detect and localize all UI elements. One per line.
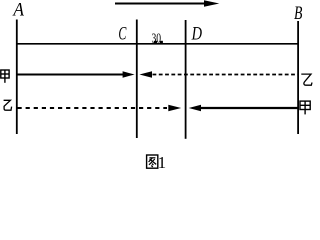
label jia (right) — [300, 101, 310, 114]
top direction arrow — [115, 0, 219, 6]
vertical line D — [185, 20, 187, 139]
main horizontal line A to B — [16, 43, 299, 45]
row2: jia solid arrow from B to D — [189, 105, 298, 111]
label jia (left) — [1, 70, 9, 83]
vertical line C — [136, 20, 138, 139]
svg-text:A: A — [12, 1, 25, 21]
svg-text:C: C — [118, 24, 126, 44]
vertical line B — [297, 21, 299, 134]
svg-text:D: D — [191, 24, 203, 44]
row1: jia solid arrow from A to C — [18, 71, 135, 77]
label yi (left) — [4, 100, 12, 110]
label yi (right) — [301, 74, 312, 85]
row1: yi dashed arrow from B to C — [139, 71, 298, 77]
caption tu (figure) glyph — [147, 155, 158, 168]
svg-text:1: 1 — [158, 153, 167, 169]
svg-text:30: 30 — [152, 31, 162, 46]
row2: yi dashed arrow from A to D — [18, 105, 182, 111]
bold tick under digit 0 — [160, 41, 163, 44]
bold tick under digit 3 — [154, 41, 157, 44]
vertical line A — [16, 20, 18, 135]
